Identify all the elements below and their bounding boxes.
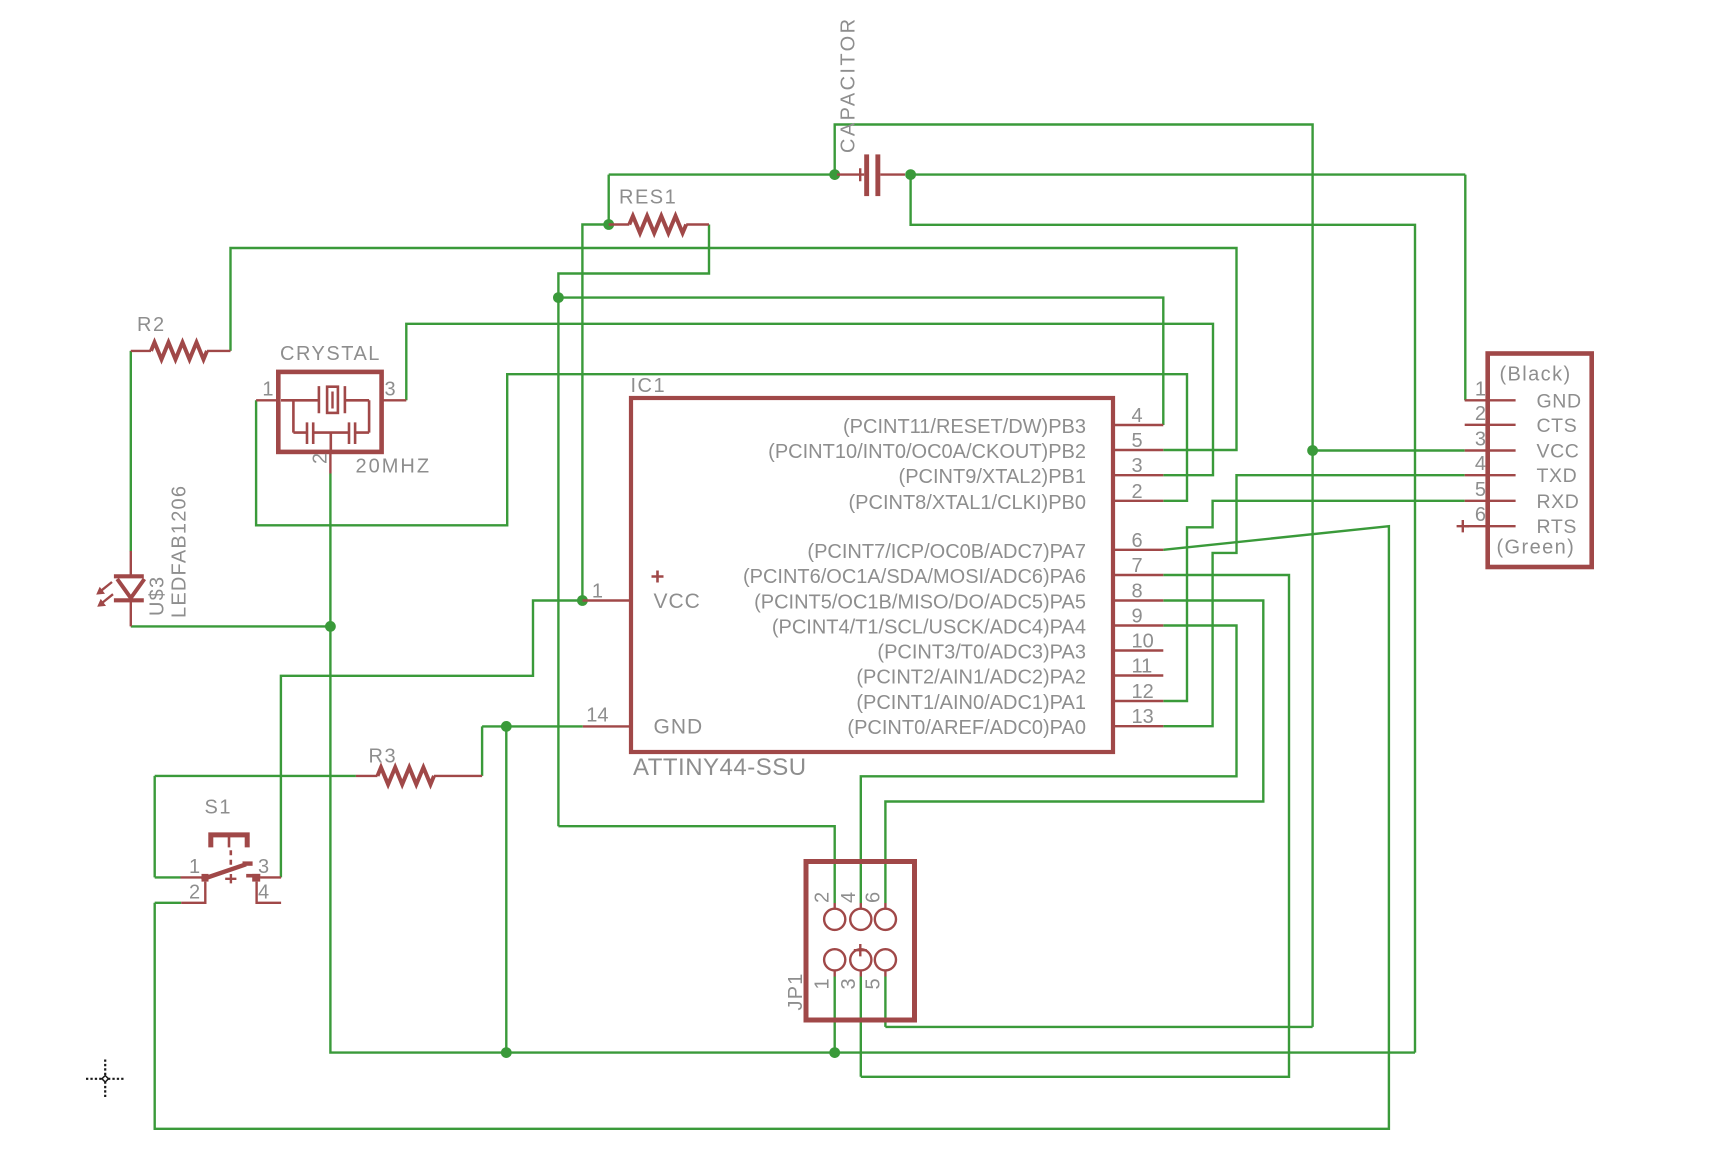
JP1 pin circles top row [824,909,896,930]
svg-text:3: 3 [1475,429,1486,451]
wire net R2 to PB2 [231,248,1237,450]
svg-text:(PCINT2/AIN1/ADC2)PA2: (PCINT2/AIN1/ADC2)PA2 [856,667,1086,689]
wire net PA6 to JP1 pin3 [861,575,1289,1077]
LED U$3 symbol [96,551,144,626]
JP1 connector box [806,862,915,1021]
svg-text:1: 1 [189,856,200,878]
wire net XTAL1 (crystal pin1 to PB0) [256,374,1187,525]
junction FTDI VCC [1307,445,1318,456]
crystal pin leads [256,400,406,473]
svg-text:(PCINT7/ICP/OC0B/ADC7)PA7: (PCINT7/ICP/OC0B/ADC7)PA7 [807,541,1086,563]
junction RES1 left [603,219,614,230]
svg-text:RES1: RES1 [619,187,677,209]
junction GND bottom rail B [829,1047,840,1058]
svg-text:2: 2 [1475,403,1486,425]
wire net R3 to S1 pin1 [155,776,356,878]
op-amp: IC1 ATTINY44-SSU body [631,398,1113,752]
svg-text:ATTINY44-SSU: ATTINY44-SSU [633,754,807,781]
svg-text:4: 4 [1475,453,1486,475]
svg-text:4: 4 [838,892,860,903]
svg-text:3: 3 [258,856,269,878]
junction IC1 VCC pin [577,595,588,606]
FTDI connector box [1488,354,1592,568]
FTDI RTS plus mark [1457,520,1469,532]
origin crosshair marker [86,1060,125,1099]
FTDI pin stubs [1465,400,1516,526]
svg-text:(PCINT5/OC1B/MISO/DO/ADC5)PA5: (PCINT5/OC1B/MISO/DO/ADC5)PA5 [754,592,1086,614]
svg-text:(PCINT4/T1/SCL/USCK/ADC4)PA4: (PCINT4/T1/SCL/USCK/ADC4)PA4 [772,617,1086,639]
svg-text:10: 10 [1132,631,1154,653]
svg-text:(PCINT10/INT0/OC0A/CKOUT)PB2: (PCINT10/INT0/OC0A/CKOUT)PB2 [768,441,1086,463]
svg-text:8: 8 [1132,581,1143,603]
JP1 red pin ticks [835,903,886,977]
junction IC1 GND pin [501,721,512,732]
svg-text:U$3: U$3 [147,576,169,616]
wire net PA4 to JP1 pin4 [861,626,1237,904]
svg-text:4: 4 [1132,405,1143,427]
IC1 plus mark [652,571,664,583]
svg-text:14: 14 [586,705,608,727]
wire net XTAL2 (crystal pin3 to PB1) [406,324,1213,475]
svg-text:1: 1 [592,581,603,603]
svg-text:1: 1 [812,978,834,989]
svg-text:(PCINT9/XTAL2)PB1: (PCINT9/XTAL2)PB1 [899,466,1086,488]
crystal component box [278,372,381,452]
svg-text:12: 12 [1132,681,1154,703]
svg-text:CRYSTAL: CRYSTAL [280,343,381,365]
svg-text:2: 2 [310,453,332,464]
svg-text:RXD: RXD [1537,491,1580,513]
junction capacitor left [829,169,840,180]
svg-text:CAPACITOR: CAPACITOR [838,17,860,153]
svg-text:R2: R2 [137,314,166,336]
junction LED cathode [325,621,336,632]
junction GND bottom rail A [501,1047,512,1058]
svg-text:(PCINT0/AREF/ADC0)PA0: (PCINT0/AREF/ADC0)PA0 [847,717,1086,739]
svg-text:3: 3 [1132,455,1143,477]
svg-text:5: 5 [1132,430,1143,452]
svg-text:5: 5 [1475,479,1486,501]
svg-text:6: 6 [1132,530,1143,552]
capacitor plates and leads [837,154,905,196]
svg-text:JP1: JP1 [785,972,807,1010]
wire net PA5 to JP1 pin6 [885,601,1263,904]
svg-text:GND: GND [1537,390,1582,412]
IC1 left pin stubs (VCC pin1, GND pin14) [583,601,632,727]
wire net GND (crystal pin2 / LED / IC gnd / JP1 pin1 / cap right / FTDI gnd) [330,175,1465,1053]
resistor R3 [356,767,482,784]
svg-text:20MHZ: 20MHZ [356,456,432,478]
svg-text:2: 2 [812,892,834,903]
wire net RESET (RES1 right to PB3 and JP1 pin2) [558,225,1163,904]
wire net VCC left branch through RES1 junction to IC1 pin1 and S1 pin3 [281,175,609,878]
svg-text:6: 6 [862,892,884,903]
svg-text:RTS: RTS [1537,516,1577,538]
svg-text:1: 1 [262,379,273,401]
svg-text:VCC: VCC [1537,441,1580,463]
svg-text:LEDFAB1206: LEDFAB1206 [169,485,191,618]
wire net TXD (FTDI pin4 to IC pin13 PA0) [1163,475,1464,726]
resistor RES1 [609,216,709,233]
svg-text:(PCINT11/RESET/DW)PB3: (PCINT11/RESET/DW)PB3 [843,416,1086,438]
svg-text:11: 11 [1132,656,1153,678]
svg-text:R3: R3 [369,746,398,768]
JP1 pin circles bottom row [824,949,896,970]
svg-text:2: 2 [1132,481,1143,503]
resistor R2 [131,342,231,359]
svg-text:1: 1 [1475,378,1486,400]
wire net RXD (FTDI pin5 to IC pin12 PA1) [1163,501,1464,701]
svg-text:(PCINT6/OC1A/SDA/MOSI/ADC6)PA6: (PCINT6/OC1A/SDA/MOSI/ADC6)PA6 [743,566,1086,588]
svg-text:TXD: TXD [1537,465,1578,487]
svg-text:S1: S1 [205,797,232,819]
JP1 plus mark on pin 3 [854,944,867,956]
svg-text:6: 6 [1475,504,1486,526]
wire net R2 left to LED anode [130,351,132,552]
svg-text:7: 7 [1132,555,1143,577]
svg-text:VCC: VCC [654,590,701,613]
svg-text:9: 9 [1132,606,1143,628]
svg-text:3: 3 [385,379,396,401]
svg-text:13: 13 [1132,706,1154,728]
transistor-like switch S1 symbol [181,835,282,903]
junction capacitor right [905,169,916,180]
wire net VCC top rail [609,125,1465,1027]
wire net LED cathode to GND vertical [131,625,331,627]
svg-text:GND: GND [654,716,704,739]
svg-text:(PCINT3/T0/ADC3)PA3: (PCINT3/T0/ADC3)PA3 [877,642,1086,664]
svg-text:3: 3 [838,978,860,989]
junction RESET rail [553,292,564,303]
svg-text:CTS: CTS [1537,415,1578,437]
crystal internals [281,386,369,450]
svg-text:2: 2 [189,882,200,904]
svg-text:4: 4 [258,882,269,904]
svg-text:(PCINT8/XTAL1/CLKI)PB0: (PCINT8/XTAL1/CLKI)PB0 [849,492,1086,514]
IC1 right pin stubs [1113,425,1163,726]
svg-text:(Black): (Black) [1500,364,1572,386]
wire net PA7 (S1 pin2, bottom rail, diagonal to IC pin6) [155,526,1389,1129]
svg-text:(Green): (Green) [1497,537,1576,559]
svg-text:5: 5 [862,978,884,989]
svg-text:IC1: IC1 [631,375,667,397]
svg-text:(PCINT1/AIN0/ADC1)PA1: (PCINT1/AIN0/ADC1)PA1 [856,692,1086,714]
